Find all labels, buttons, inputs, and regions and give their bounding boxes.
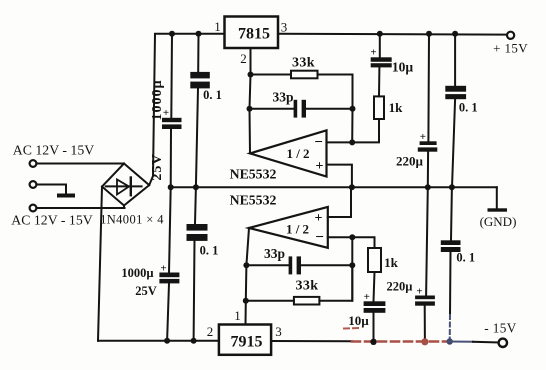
node mid rail 0.1 right xyxy=(449,184,455,190)
wire bottom rail left xyxy=(98,340,219,342)
wire 33k right lead to feedback column xyxy=(318,75,353,109)
svg-text:−: − xyxy=(315,230,324,246)
terminal -15V xyxy=(484,321,516,347)
svg-text:3: 3 xyxy=(281,20,288,35)
wire bridge bottom vertex stub xyxy=(123,206,125,209)
wire top rail to 0.1 upper-right xyxy=(454,34,456,86)
wire 33p left lead xyxy=(250,108,294,110)
node mid rail 0.1 left xyxy=(193,184,199,190)
terminal AC top xyxy=(13,143,94,167)
svg-text:+: + xyxy=(316,159,324,174)
wire bottom rail 7915 output xyxy=(271,340,352,342)
svg-text:7915: 7915 xyxy=(231,334,263,351)
wire lower 1k to 10u xyxy=(374,272,375,301)
svg-text:(GND): (GND) xyxy=(480,214,517,229)
capacitor 220u upper xyxy=(396,131,437,169)
node feedback/output junction xyxy=(349,139,355,145)
svg-text:10µ: 10µ xyxy=(348,313,369,328)
svg-text:25V: 25V xyxy=(150,153,165,180)
red ink fleck xyxy=(344,327,361,330)
capacitor 10u upper xyxy=(370,47,413,75)
svg-text:NE5532: NE5532 xyxy=(230,167,277,182)
svg-text:- 15V: - 15V xyxy=(484,321,516,336)
capacitor 0.1 upper-left xyxy=(190,72,222,102)
wire top rail +V xyxy=(149,34,224,185)
wire bottom rail red dashed segment xyxy=(352,340,448,343)
node lower 33p right junction xyxy=(349,262,355,268)
wire lower inverting input row (to 1k) xyxy=(328,237,375,248)
wire 33p right lead xyxy=(306,108,353,110)
svg-text:33p: 33p xyxy=(272,90,293,105)
wire lower feedback column xyxy=(351,237,353,301)
svg-text:+: + xyxy=(416,286,422,298)
node 33p right junction xyxy=(350,106,356,112)
node bottom rail 10u xyxy=(370,339,376,345)
svg-text:1N4001 × 4: 1N4001 × 4 xyxy=(100,213,164,227)
wire mid ground rail xyxy=(171,186,497,188)
wire bottom rail to -15V terminal xyxy=(473,341,499,344)
svg-text:1k: 1k xyxy=(384,255,399,270)
svg-text:1: 1 xyxy=(214,19,221,34)
svg-text:220µ: 220µ xyxy=(396,154,424,169)
svg-text:3: 3 xyxy=(275,324,282,339)
resistor 33k lower xyxy=(294,279,320,305)
node 0.1 top-right rail junction xyxy=(452,31,458,37)
wire 0.1 lower-left to bottom rail xyxy=(193,241,196,341)
svg-text:2: 2 xyxy=(207,324,214,339)
svg-text:+ 15V: + 15V xyxy=(493,41,528,56)
svg-text:1 / 2: 1 / 2 xyxy=(286,146,309,161)
node mid rail 1000u xyxy=(168,184,174,190)
regulator U3 7915 xyxy=(219,325,271,355)
wire feedback column down xyxy=(351,109,353,143)
wire lower column 33p to 33k xyxy=(245,265,248,301)
wire top rail to 220u upper xyxy=(427,34,430,142)
svg-text:AC 12V - 15V: AC 12V - 15V xyxy=(11,213,92,228)
capacitor 220u lower xyxy=(387,187,435,305)
svg-text:10µ: 10µ xyxy=(392,60,414,75)
svg-text:+: + xyxy=(364,291,370,303)
svg-text:NE5532: NE5532 xyxy=(230,193,277,208)
svg-text:1000µ: 1000µ xyxy=(150,79,165,120)
regulator U1 7815 xyxy=(225,17,279,49)
svg-text:+: + xyxy=(420,131,426,143)
wire lower 33k left lead xyxy=(246,300,294,302)
svg-text:33k: 33k xyxy=(292,56,315,71)
wire lower 220u to bottom rail xyxy=(424,306,426,342)
wire 10u to top rail xyxy=(379,34,381,58)
svg-text:AC 12V - 15V: AC 12V - 15V xyxy=(13,143,94,158)
capacitor 1000u/25V lower xyxy=(121,187,179,298)
bridge rectifier D1 1N4001x4 xyxy=(100,164,164,227)
capacitor 1000u/25V upper xyxy=(150,79,182,180)
resistor 1k lower xyxy=(368,248,399,272)
wire 1000u lower to bottom rail xyxy=(167,283,169,340)
wire AC top to bridge xyxy=(37,163,125,165)
wire lower 33p left lead xyxy=(246,264,288,266)
wire 0.1 lower-right down solid xyxy=(449,252,452,315)
wire 0.1 upper-right to mid rail xyxy=(452,99,455,187)
capacitor 0.1 upper-right xyxy=(445,86,477,115)
node bottom rail 0.1 navy xyxy=(447,338,453,344)
node bottom rail 1000u xyxy=(164,338,170,344)
wire top rail to 1000u upper xyxy=(170,34,173,118)
capacitor 33p upper xyxy=(272,90,306,118)
svg-text:1 / 2: 1 / 2 xyxy=(286,222,309,237)
wire inverting input row (to 1k) xyxy=(327,119,380,142)
wire lower 33p right lead xyxy=(301,264,352,266)
svg-text:+: + xyxy=(315,211,323,226)
wire lower non-inverting input to mid rail xyxy=(328,187,351,217)
wire apex to lower 33p row xyxy=(246,228,249,265)
node lower feedback junction xyxy=(349,234,355,240)
node 0.1 top rail junction xyxy=(196,31,202,37)
capacitor 0.1 lower-left xyxy=(187,187,219,257)
svg-text:33k: 33k xyxy=(296,279,319,294)
wire 220u upper to mid rail xyxy=(427,152,429,188)
node lower 33p left junction xyxy=(243,262,249,268)
wire lower 10u to bottom rail xyxy=(373,313,375,342)
op-amp U2a NE5532 1/2 xyxy=(250,130,327,176)
terminal AC bottom xyxy=(11,205,92,228)
node bottom rail 220u red xyxy=(421,338,428,345)
node mid rail op-amp inputs xyxy=(349,184,355,190)
wire 33k left lead xyxy=(251,74,292,76)
wire non-inverting input to mid rail xyxy=(327,165,352,188)
node pin2/33k junction xyxy=(248,72,254,78)
node 10u top rail junction xyxy=(377,31,383,37)
op-amp U2b NE5532 1/2 xyxy=(249,207,328,248)
wire 1000u upper to mid rail xyxy=(170,129,172,187)
svg-text:0. 1: 0. 1 xyxy=(456,251,475,265)
node 1000u top rail junction xyxy=(169,31,175,37)
capacitor 10u lower xyxy=(348,291,385,328)
svg-text:7815: 7815 xyxy=(238,26,270,43)
wire AC bottom to bridge xyxy=(37,207,125,209)
node bottom rail 0.1 xyxy=(191,338,197,344)
svg-text:1: 1 xyxy=(234,308,241,323)
ground chassis symbol xyxy=(57,194,75,198)
svg-text:+: + xyxy=(370,47,376,59)
node mid rail 220u xyxy=(425,184,431,190)
wire AC mid to chassis ground xyxy=(37,185,67,194)
svg-text:0. 1: 0. 1 xyxy=(203,88,222,102)
wire 0.1 upper-left to mid rail xyxy=(196,88,198,187)
svg-text:220µ: 220µ xyxy=(387,280,413,294)
wire 7815 output to +15V xyxy=(278,33,507,36)
wire bridge negative down to bottom rail xyxy=(98,187,102,341)
wire bottom rail navy segment xyxy=(448,341,473,343)
capacitor 33p lower xyxy=(264,246,301,274)
svg-text:33p: 33p xyxy=(264,246,285,261)
wire lower column to 7915 pin1 xyxy=(245,301,247,325)
terminal GND xyxy=(480,187,517,229)
svg-text:0. 1: 0. 1 xyxy=(200,244,219,258)
wire lower 33k right lead up to feedback column xyxy=(319,265,352,301)
wire 1k to 10u xyxy=(378,67,380,96)
terminal AC mid xyxy=(30,181,37,188)
wire 7815 pin2 down xyxy=(250,48,252,74)
wire pin2 column down to 33p row xyxy=(250,75,251,109)
wire 33p row to op-amp apex xyxy=(249,109,252,154)
resistor 33k upper xyxy=(291,56,318,79)
svg-text:2: 2 xyxy=(240,51,247,66)
wire 0.1 lower-right down dashed navy xyxy=(449,315,451,342)
svg-text:1k: 1k xyxy=(389,100,404,115)
node lower 33k left junction xyxy=(243,298,249,304)
node 33p left junction xyxy=(247,106,253,112)
terminal +15V xyxy=(493,32,528,56)
wire top rail to 0.1 upper-left xyxy=(197,34,199,72)
capacitor 0.1 lower-right xyxy=(441,187,475,264)
node 220u top rail junction xyxy=(426,31,432,37)
resistor 1k upper xyxy=(374,96,403,119)
svg-text:0. 1: 0. 1 xyxy=(459,101,478,115)
svg-text:−: − xyxy=(314,135,323,151)
svg-text:1000µ: 1000µ xyxy=(121,266,153,280)
svg-text:+: + xyxy=(160,263,166,275)
svg-text:25V: 25V xyxy=(135,284,157,298)
